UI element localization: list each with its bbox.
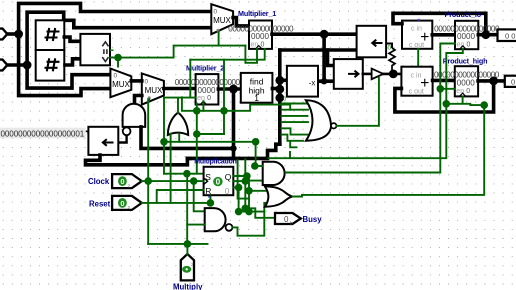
svg-text:0: 0 bbox=[283, 97, 286, 103]
wire: spine top bus to shifter in2 bbox=[280, 48, 357, 52]
node: dot 224,110.8 bbox=[220, 107, 228, 115]
svg-text:0 0: 0 0 bbox=[505, 31, 515, 40]
wire: adder2 b input loop from product_high bbox=[395, 81, 494, 112]
wire: M1 Q down to negator line bbox=[322, 34, 326, 81]
wire: long green y=141.8 bbox=[164, 141, 256, 143]
svg-text:0: 0 bbox=[216, 178, 221, 187]
svg-text:0: 0 bbox=[114, 73, 118, 80]
wire: MUX2 select riser bbox=[148, 99, 149, 181]
MUX U1 (top) bbox=[211, 4, 233, 34]
svg-text:Product_high: Product_high bbox=[443, 57, 488, 66]
svg-text:en: en bbox=[457, 41, 465, 48]
MUX U3 (small left) bbox=[110, 69, 131, 98]
node: clock/MUX2sel dot bbox=[144, 177, 152, 185]
svg-text:-x: -x bbox=[309, 79, 316, 88]
node: spine dot 3 bbox=[275, 93, 284, 102]
MUX U2 bbox=[142, 73, 164, 104]
node: latch clock dot bbox=[190, 177, 198, 185]
svg-text:R: R bbox=[205, 186, 211, 196]
wire: 164 down from dot bbox=[163, 142, 165, 174]
wire: y=211.6 line bbox=[238, 203, 267, 212]
wire: extender2 out to comparator b bbox=[65, 59, 80, 65]
wire: shiftreg out to inverted bubble of AND dome bbox=[118, 135, 126, 142]
wire: Product_high Q to output pin bbox=[478, 79, 505, 83]
OR gate (wide, inputs from splitter) bbox=[306, 100, 331, 140]
svg-text:c out: c out bbox=[409, 88, 424, 95]
svg-text:Busy: Busy bbox=[303, 215, 323, 224]
svg-text:0: 0 bbox=[120, 199, 124, 208]
node: green dot left bbox=[160, 138, 168, 146]
wire: multiply line bbox=[148, 243, 207, 245]
wire: clock line to latch bbox=[142, 180, 204, 182]
wire: clock down to NAND in1 bbox=[194, 181, 205, 211]
comparator bbox=[80, 34, 110, 65]
svg-text:MUX: MUX bbox=[145, 86, 163, 95]
wire: 238.6 down bbox=[238, 188, 240, 212]
wire: P_lo clock drop bbox=[446, 49, 463, 104]
NOR output bubble bbox=[331, 123, 336, 128]
svg-text:Reset: Reset bbox=[89, 200, 111, 209]
wire: V 224 bbox=[223, 60, 225, 134]
svg-text:0: 0 bbox=[207, 95, 211, 102]
node: dot OR loop top bbox=[480, 101, 488, 109]
wire: Product_lo Q to output pin bbox=[478, 33, 497, 37]
latch clock triangle bbox=[204, 178, 208, 184]
input pin B (16-bit operand, clipped at left edge) bbox=[0, 60, 7, 71]
svg-text:0: 0 bbox=[511, 77, 515, 86]
node: dot 186.9,173.7 bbox=[183, 170, 191, 178]
register Multiplier_2 bbox=[196, 74, 219, 104]
buffer bbox=[372, 69, 384, 80]
node: P_high out junction bbox=[489, 77, 498, 86]
wire: OR in1 bbox=[249, 190, 267, 192]
wire: y=187.5 line from latch bbox=[233, 187, 238, 189]
constant 0...01 (highlighted) bbox=[0, 128, 86, 139]
wire: clock into P_hi clock + right branch bbox=[446, 96, 484, 105]
node: clock net dot right bbox=[443, 100, 451, 108]
svg-text:0: 0 bbox=[467, 41, 471, 48]
NAND gate bbox=[205, 208, 226, 231]
svg-text:0000: 0000 bbox=[251, 32, 270, 41]
wire: OR-up left leg down to Reset line bbox=[170, 134, 172, 203]
wire: comparator less-than to MUX1 select chain bbox=[110, 46, 245, 67]
register Product_high bbox=[455, 66, 478, 96]
wire: AND-dome out to MUX2 in1 bbox=[135, 96, 142, 104]
wire: AND2 in2 stub bbox=[245, 180, 262, 182]
node: junction B bbox=[23, 61, 32, 70]
wire: multiply riser to NAND in2 bbox=[186, 174, 188, 244]
node: junction buffer out bbox=[389, 70, 398, 79]
wire: shiftreg box bottom loop to lower bus bbox=[86, 155, 191, 165]
wire: H 134 bbox=[197, 133, 224, 135]
latch state token bbox=[213, 177, 222, 186]
wire: reset line bbox=[142, 202, 211, 204]
multiply input pin bbox=[181, 254, 194, 280]
output pin product high (clipped) bbox=[505, 76, 516, 87]
svg-text:Q: Q bbox=[225, 172, 232, 182]
adder 1 bbox=[402, 21, 432, 49]
node: dots on 211.6 bbox=[235, 208, 243, 216]
negator box -x bbox=[287, 66, 318, 97]
node: dot AND in1 bbox=[251, 162, 259, 170]
wire: green drop from bus2 end bbox=[238, 160, 249, 198]
wire: AND in1 bbox=[256, 165, 263, 167]
wire: pin A to junction bbox=[7, 32, 18, 36]
node: spine dot 1 bbox=[275, 76, 284, 85]
OR gate (busy logic) bbox=[265, 186, 293, 206]
wire: clock vertical to H1 bbox=[244, 159, 246, 208]
svg-text:0: 0 bbox=[145, 78, 149, 85]
node: M1 output junction bbox=[320, 30, 329, 39]
wire: A up-loop to MUX_1 in0 bbox=[19, 3, 211, 34]
bubble (inverted input) bbox=[123, 127, 131, 135]
OR gate pointing up bbox=[168, 113, 188, 135]
wire: adder1 a input loop from product_lo bbox=[393, 13, 486, 34]
wire: reset riser to R via 156.7 bbox=[157, 190, 204, 203]
svg-text:Multiplication: Multiplication bbox=[194, 158, 236, 165]
busy output pin bbox=[275, 213, 301, 224]
wire: A down-loop to MUX_3 in1 bbox=[19, 34, 110, 96]
wire: M2 Q down to AND bus bbox=[232, 89, 236, 158]
wire: H 110.8 bbox=[197, 105, 290, 111]
wire: OR out to product-high loop bbox=[293, 105, 485, 196]
shifter 2 (right arrow) bbox=[334, 59, 363, 89]
svg-text:MUX: MUX bbox=[112, 80, 130, 89]
wire: Multiplier_1 Q to shifter bbox=[272, 32, 357, 36]
register Product_lo bbox=[455, 21, 478, 49]
shifter 1 (left arrow) bbox=[357, 26, 387, 58]
svg-text:Multiply: Multiply bbox=[173, 283, 203, 290]
find high box bbox=[241, 73, 273, 103]
wire: NAND out zigzag bbox=[232, 212, 264, 236]
wire: MUX1 select riser bbox=[218, 32, 220, 46]
node: dot 196.5,134 bbox=[193, 130, 201, 138]
S-R latch box bbox=[204, 167, 234, 195]
wire: pin B to junction bbox=[7, 63, 27, 67]
wire: busy feed bbox=[245, 208, 275, 218]
wire: buffer out to adder2 a bbox=[383, 73, 401, 76]
svg-text:1: 1 bbox=[254, 93, 259, 103]
node: junction at negator output line bbox=[321, 78, 327, 84]
svg-text:0000: 0000 bbox=[197, 86, 216, 95]
node: spine dot 2 bbox=[275, 85, 284, 94]
wire: reset to latch bottom pin bbox=[209, 197, 211, 203]
wire: en branch into P_high bbox=[440, 88, 455, 90]
wire: OR-up output up then left (en line to Multiplier_2 en) bbox=[164, 98, 196, 113]
wire: MUX1 out to Multiplier_1 D bbox=[233, 18, 249, 26]
wire: en corner down to long line bbox=[163, 98, 165, 142]
wire: adder1 sum to Product_lo D bbox=[432, 33, 455, 37]
bit extender #1 bbox=[36, 20, 65, 50]
wire: NAND in2 from multiply bbox=[187, 224, 205, 226]
svg-text:0: 0 bbox=[120, 177, 124, 186]
wire: adder2 sum to Product_high D bbox=[433, 79, 455, 83]
wire: MUX3 out to MUX2 in0 bbox=[131, 79, 142, 83]
wire: en branch down to clock line bbox=[182, 97, 197, 111]
wire: OR-up right leg down to long line bbox=[178, 134, 180, 142]
AND gate dome (output up) bbox=[123, 104, 146, 127]
bit extender #2 bbox=[36, 50, 65, 81]
wire: NOR out to buffer enable bbox=[336, 78, 379, 126]
pull resistor on shifter1 output bbox=[386, 44, 392, 49]
splitter fan to OR inputs bbox=[282, 103, 310, 105]
node: junction bus at 147.5 bbox=[230, 145, 236, 151]
node: M2 output junction bbox=[229, 85, 238, 94]
node: junction A bbox=[14, 30, 23, 39]
wire: lower bus (to splitter staircase) bbox=[187, 144, 279, 158]
AND gate (busy logic) bbox=[263, 162, 285, 185]
svg-text:c out: c out bbox=[409, 42, 424, 49]
svg-text:0: 0 bbox=[466, 88, 470, 95]
node: Q dot bbox=[243, 172, 251, 180]
svg-text:Product_lo: Product_lo bbox=[445, 10, 482, 19]
shift register box (left arrow) bbox=[88, 127, 118, 155]
wire: latch Q out bbox=[233, 175, 249, 177]
wire: Q down bbox=[248, 176, 250, 212]
wire: spine to negator bbox=[280, 79, 287, 83]
svg-text:0000000000000000001: 0000000000000000001 bbox=[1, 130, 85, 139]
wire: MUX2 out to Multiplier_2 D bbox=[164, 87, 196, 91]
wire: M1 clock stubs bbox=[190, 49, 264, 60]
output pin product low (clipped) bbox=[498, 29, 516, 41]
node: dot OR in1 bbox=[245, 187, 253, 195]
wire: AND out to EN loop bbox=[286, 44, 455, 173]
wire: B down-loop to MUX_3 in0 bbox=[27, 65, 110, 88]
wire: negator to shifter2 in2 bbox=[318, 79, 334, 83]
wire: 255.6 vertical bbox=[255, 142, 257, 166]
adder 2 bbox=[401, 67, 432, 96]
svg-text:0: 0 bbox=[388, 45, 392, 52]
svg-text:Multiplier_2: Multiplier_2 bbox=[186, 64, 224, 73]
node: multiply dot bbox=[184, 240, 192, 248]
wire: branch down to shifter2 in1 bbox=[328, 50, 334, 66]
wire: B up-loop to MUX_1 in1 bbox=[27, 12, 210, 65]
wire: find-high out to splitter spine bbox=[272, 87, 279, 91]
svg-text:0000: 0000 bbox=[457, 32, 476, 41]
node: dot 196.5,110.8 bbox=[193, 107, 201, 115]
wire: H1 clock to right bbox=[269, 104, 447, 158]
node: comparator out dot bbox=[114, 54, 122, 62]
wire: S feed line bbox=[164, 173, 204, 175]
node: reset latch dot bbox=[207, 199, 215, 207]
node: P_lo out junction bbox=[481, 30, 490, 39]
node: dot 245.3,208.3 bbox=[242, 205, 250, 213]
wire: 190.3 drop to en line bbox=[189, 60, 191, 98]
svg-text:Clock: Clock bbox=[88, 177, 110, 186]
wire: adder1 carry-out down to adder2 carry-in bbox=[417, 49, 419, 67]
wire: vertical 196.8 bbox=[196, 104, 198, 174]
wire: clock down to multiply line bbox=[147, 181, 149, 244]
wire: clock segment right of latch bbox=[233, 180, 245, 182]
wire: multiply pin to line bbox=[186, 244, 188, 255]
svg-text:0: 0 bbox=[225, 187, 230, 196]
wire: Multiplier_2 Q to find-high bbox=[218, 87, 240, 91]
wire: bus to AND-dome input bbox=[141, 127, 234, 148]
svg-text:0000: 0000 bbox=[457, 78, 476, 87]
splitter spine bbox=[278, 50, 282, 144]
wire: extender1 out to comparator a bbox=[64, 37, 80, 41]
node: clock dot bbox=[242, 177, 250, 185]
svg-text:0: 0 bbox=[284, 215, 289, 224]
input pin A (16-bit operand, clipped at left edge) bbox=[0, 29, 7, 40]
wire: M2 clock drop bbox=[202, 101, 204, 111]
svg-text:Multiplier_1: Multiplier_1 bbox=[238, 9, 276, 18]
register Multiplier_1 bbox=[249, 21, 272, 49]
node: dot 238.6,187.5 bbox=[235, 184, 243, 192]
svg-text:0: 0 bbox=[214, 9, 218, 16]
wire: shifter2 out to buffer bbox=[363, 73, 372, 76]
node: EN dot at P_high bbox=[437, 85, 445, 93]
node: dot 255.6,141.8 bbox=[252, 138, 260, 146]
